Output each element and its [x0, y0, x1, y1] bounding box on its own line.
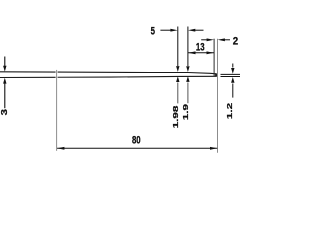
svg-text:80: 80 — [132, 134, 141, 147]
svg-text:2: 2 — [233, 36, 239, 48]
svg-text:5: 5 — [151, 25, 156, 38]
svg-text:1.2: 1.2 — [226, 103, 234, 119]
svg-text:1.98: 1.98 — [172, 105, 180, 129]
svg-text:3: 3 — [0, 109, 9, 116]
svg-text:1.9: 1.9 — [182, 103, 190, 120]
svg-text:13: 13 — [196, 41, 205, 54]
